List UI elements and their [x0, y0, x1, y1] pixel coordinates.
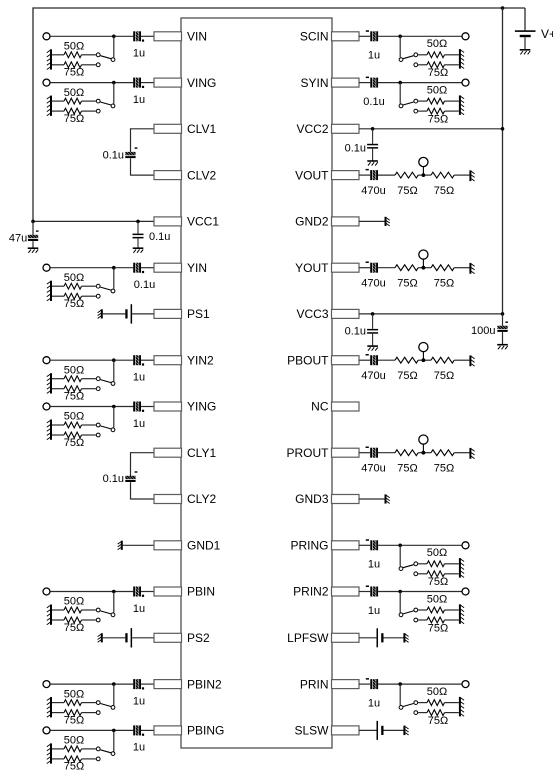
- svg-text:75Ω: 75Ω: [64, 391, 84, 403]
- svg-text:VING: VING: [187, 76, 216, 90]
- connector J (SCIN output): [462, 33, 469, 40]
- svg-text:SCIN: SCIN: [300, 30, 329, 44]
- connector J (PBIN input): [43, 588, 50, 595]
- wire right supply bus: [502, 8, 504, 314]
- svg-text:50Ω: 50Ω: [64, 596, 84, 608]
- pin box GND3: [295, 492, 359, 506]
- svg-text:0.1u: 0.1u: [345, 325, 366, 337]
- resistor 75&#937; (PBOUT series): [395, 357, 418, 382]
- svg-text:PBIN: PBIN: [187, 585, 215, 599]
- svg-text:50Ω: 50Ω: [427, 547, 447, 559]
- pin box CLY2: [154, 492, 216, 506]
- ground (PRING termination): [460, 558, 464, 578]
- wire and node (PROUT output): [418, 451, 431, 455]
- resistor 50&#937; (YING termination): [51, 411, 96, 428]
- svg-text:1u: 1u: [133, 418, 145, 430]
- switch SW (VIN termination select): [96, 36, 115, 66]
- svg-text:PBOUT: PBOUT: [287, 353, 329, 367]
- wire pin PROUT to cap: [359, 452, 370, 454]
- svg-text:75Ω: 75Ω: [64, 67, 84, 79]
- svg-text:1u: 1u: [368, 697, 380, 709]
- svg-text:CLY2: CLY2: [187, 492, 216, 506]
- svg-text:CLY1: CLY1: [187, 446, 216, 460]
- pin box YING: [154, 400, 216, 414]
- ground (VING termination): [47, 96, 51, 116]
- wire cap to resistor (VOUT): [378, 174, 395, 176]
- wire VCC3 to supply bus: [359, 312, 504, 316]
- capacitor C 0.1u (CLY1/CLY2): [103, 471, 138, 485]
- svg-text:75Ω: 75Ω: [434, 277, 454, 289]
- wire CLV1 to cap: [131, 128, 155, 152]
- svg-text:100u: 100u: [471, 325, 495, 337]
- pin box PBOUT: [287, 353, 359, 367]
- svg-text:1u: 1u: [133, 695, 145, 707]
- capacitor C 1u (PRIN coupling): [366, 678, 380, 709]
- svg-text:VCC2: VCC2: [296, 122, 328, 136]
- pin box PRIN: [300, 677, 359, 691]
- svg-text:75Ω: 75Ω: [434, 370, 454, 382]
- battery V+ supply: [515, 8, 553, 50]
- capacitor C 1u (SCIN coupling): [366, 30, 380, 61]
- resistor 50&#937; (SYIN termination): [418, 84, 459, 104]
- resistor 50&#937; (SCIN termination): [418, 38, 459, 58]
- connector J (PROUT output): [419, 435, 428, 453]
- ground (LPFSW): [404, 633, 408, 642]
- capacitor C 470u (PROUT): [361, 447, 385, 475]
- pin box VCC1: [154, 215, 219, 229]
- resistor 50&#937; (VIN termination): [51, 41, 96, 58]
- pin box YIN: [154, 261, 207, 275]
- resistor 75&#937; (YING termination): [51, 432, 96, 449]
- pin box PS2: [154, 631, 210, 645]
- wire cap to resistor (PBOUT): [378, 359, 395, 361]
- pin box GND2: [295, 215, 359, 229]
- resistor 75&#937; (PRING termination): [418, 571, 459, 588]
- resistor 50&#937; (PBIN2 termination): [51, 688, 96, 705]
- svg-text:VCC1: VCC1: [187, 215, 219, 229]
- switch SW (PBING termination select): [96, 730, 115, 760]
- svg-text:75Ω: 75Ω: [397, 277, 417, 289]
- svg-text:YIN: YIN: [187, 261, 207, 275]
- connector J (VING input): [43, 79, 50, 86]
- wire left supply rail: [32, 7, 34, 221]
- svg-text:1u: 1u: [368, 605, 380, 617]
- svg-text:YOUT: YOUT: [295, 261, 329, 275]
- ground (YIN2 termination): [47, 373, 51, 393]
- wire cap to resistor (YOUT): [378, 267, 395, 269]
- svg-text:PBIN2: PBIN2: [187, 677, 222, 691]
- wire battery to ground (LPFSW): [384, 637, 404, 639]
- wire cap to pin PBIN2: [141, 683, 154, 685]
- wire ground to pin GND1: [122, 544, 154, 546]
- resistor 75&#937; (VOUT series): [395, 172, 418, 197]
- ground (100u cap): [497, 345, 508, 350]
- resistor 75&#937; (PBING termination): [51, 756, 96, 773]
- ground (47u cap): [28, 248, 39, 253]
- ground (GND3): [386, 494, 390, 503]
- svg-text:PBING: PBING: [187, 724, 224, 738]
- svg-text:50Ω: 50Ω: [427, 84, 447, 96]
- pin box SYIN: [300, 76, 359, 90]
- ground (V+ battery): [520, 50, 531, 55]
- svg-text:CLV1: CLV1: [187, 122, 216, 136]
- ground (PBOUT): [470, 355, 474, 366]
- wire cap to connector (SYIN): [378, 81, 462, 85]
- ground (GND2): [386, 217, 390, 226]
- battery (LPFSW level): [377, 628, 384, 647]
- svg-text:47u: 47u: [9, 232, 27, 244]
- svg-text:YING: YING: [187, 400, 216, 414]
- switch SW (VING termination select): [96, 83, 115, 113]
- ground (PBING termination): [47, 743, 51, 763]
- resistor 75&#937; (PBOUT shunt): [431, 357, 454, 382]
- svg-text:470u: 470u: [361, 277, 385, 289]
- svg-text:1u: 1u: [133, 742, 145, 754]
- svg-text:75Ω: 75Ω: [64, 437, 84, 449]
- wire ground to battery (PS2): [102, 637, 126, 639]
- pin box CLV2: [154, 168, 216, 182]
- ground (PRIN2 termination): [460, 604, 464, 624]
- wire battery to pin PS2: [132, 637, 154, 639]
- ground (YING termination): [47, 420, 51, 440]
- wire pin PRING to coupling cap: [359, 544, 370, 546]
- svg-text:75Ω: 75Ω: [434, 185, 454, 197]
- svg-text:NC: NC: [311, 400, 329, 414]
- pin box CLV1: [154, 122, 216, 136]
- wire cap to connector (PRING): [378, 544, 462, 548]
- svg-text:GND3: GND3: [295, 492, 329, 506]
- svg-text:50Ω: 50Ω: [427, 593, 447, 605]
- ground (PBIN termination): [47, 605, 51, 625]
- capacitor C 1u (PBING coupling): [133, 725, 145, 753]
- capacitor C 1u (YING coupling): [133, 402, 145, 430]
- capacitor C 0.1u (VCC3 bypass): [345, 314, 379, 346]
- switch SW (SCIN termination select): [399, 36, 418, 66]
- capacitor C 1u (PRIN2 coupling): [366, 586, 380, 617]
- pin box PBIN2: [154, 677, 222, 691]
- capacitor C 0.1u (SYIN coupling): [363, 77, 384, 108]
- ground (VIN termination): [47, 49, 51, 69]
- svg-text:50Ω: 50Ω: [64, 364, 84, 376]
- svg-text:1u: 1u: [133, 603, 145, 615]
- svg-text:50Ω: 50Ω: [427, 38, 447, 50]
- resistor 50&#937; (PBIN termination): [51, 596, 96, 613]
- ground (PRIN termination): [460, 697, 464, 717]
- svg-text:50Ω: 50Ω: [64, 87, 84, 99]
- connector J (YING input): [43, 403, 50, 410]
- svg-text:PRIN2: PRIN2: [293, 585, 329, 599]
- wire PBIN2 input to coupling cap: [50, 682, 133, 686]
- resistor 75&#937; (PBIN termination): [51, 617, 96, 634]
- switch SW (PBIN2 termination select): [96, 684, 115, 714]
- wire cap to pin YING: [141, 406, 154, 408]
- ground (PROUT): [470, 448, 474, 459]
- ground (PS2): [98, 633, 102, 642]
- wire cap to connector (PRIN2): [378, 590, 462, 594]
- svg-text:75Ω: 75Ω: [428, 576, 448, 588]
- pin box VING: [154, 76, 216, 90]
- wire YING input to coupling cap: [50, 405, 133, 409]
- wire cap to connector (SCIN): [378, 35, 462, 39]
- pin box NC: [311, 400, 359, 414]
- wire battery to pin PS1: [132, 313, 154, 315]
- wire pin YOUT to cap: [359, 267, 370, 269]
- svg-text:1u: 1u: [133, 94, 145, 106]
- switch SW (YIN termination select): [96, 268, 115, 298]
- wire VCC1 supply: [31, 220, 154, 224]
- resistor 50&#937; (YIN termination): [51, 272, 96, 289]
- svg-text:SYIN: SYIN: [300, 76, 328, 90]
- ground (YIN termination): [47, 281, 51, 301]
- pin box PS1: [154, 307, 210, 321]
- connector J (PRIN output): [462, 681, 469, 688]
- resistor 75&#937; (VOUT shunt): [431, 172, 454, 197]
- svg-text:75Ω: 75Ω: [64, 298, 84, 310]
- svg-text:0.1u: 0.1u: [103, 473, 124, 485]
- wire cap to connector (PRIN): [378, 682, 462, 686]
- wire cap to CLV2: [131, 158, 155, 175]
- svg-text:50Ω: 50Ω: [427, 686, 447, 698]
- resistor 75&#937; (VIN termination): [51, 62, 96, 79]
- wire cap to pin YIN: [141, 267, 154, 269]
- wire cap to pin VIN: [141, 35, 154, 37]
- svg-text:50Ω: 50Ω: [64, 688, 84, 700]
- resistor 50&#937; (VING termination): [51, 87, 96, 104]
- wire CLY1 to cap: [131, 452, 155, 476]
- ground (PBIN2 termination): [47, 697, 51, 717]
- capacitor C 0.1u (VCC2 bypass): [345, 129, 379, 161]
- svg-text:PS2: PS2: [187, 631, 210, 645]
- svg-text:75Ω: 75Ω: [64, 714, 84, 726]
- svg-text:0.1u: 0.1u: [149, 231, 170, 243]
- wire resistor to ground (PROUT): [454, 452, 470, 454]
- svg-text:YIN2: YIN2: [187, 353, 214, 367]
- svg-text:75Ω: 75Ω: [397, 370, 417, 382]
- wire cap to CLY2: [131, 482, 155, 499]
- pin box VOUT: [295, 168, 359, 182]
- wire and node (YOUT output): [418, 266, 431, 270]
- pin box VIN: [154, 30, 207, 44]
- resistor 75&#937; (PBIN2 termination): [51, 710, 96, 727]
- svg-text:VIN: VIN: [187, 30, 207, 44]
- svg-text:GND1: GND1: [187, 539, 221, 553]
- connector J (PBIN2 input): [43, 681, 50, 688]
- pin box SLSW: [294, 724, 359, 738]
- capacitor C 0.1u (VCC1 bypass): [133, 221, 171, 248]
- svg-text:0.1u: 0.1u: [363, 96, 384, 108]
- svg-text:75Ω: 75Ω: [64, 113, 84, 125]
- wire VING input to coupling cap: [50, 81, 133, 85]
- wire pin LPFSW to battery: [359, 637, 377, 639]
- svg-text:VOUT: VOUT: [295, 168, 329, 182]
- svg-text:PRIN: PRIN: [300, 677, 329, 691]
- connector J (VIN input): [43, 33, 50, 40]
- wire V+ top rail: [33, 6, 525, 10]
- ground (SCIN termination): [460, 49, 464, 69]
- ground (VCC2 bypass cap): [367, 161, 378, 166]
- ground (YOUT): [470, 263, 474, 274]
- battery (SLSW level): [377, 721, 384, 740]
- resistor 75&#937; (SCIN termination): [418, 62, 459, 79]
- pin box PRIN2: [293, 585, 359, 599]
- pin box PRING: [290, 539, 359, 553]
- pin box YOUT: [295, 261, 359, 275]
- capacitor C 1u (PBIN2 coupling): [133, 679, 145, 707]
- svg-text:1u: 1u: [133, 48, 145, 60]
- switch SW (YIN2 termination select): [96, 360, 115, 390]
- wire battery to ground (SLSW): [384, 729, 404, 731]
- resistor 50&#937; (PRIN2 termination): [418, 593, 459, 613]
- connector J (PBING input): [43, 727, 50, 734]
- svg-text:75Ω: 75Ω: [428, 67, 448, 79]
- svg-text:1u: 1u: [368, 559, 380, 571]
- pin box VCC3: [296, 307, 359, 321]
- svg-text:50Ω: 50Ω: [64, 411, 84, 423]
- wire and node (VOUT output): [418, 173, 431, 177]
- resistor 75&#937; (VING termination): [51, 108, 96, 125]
- switch SW (PRIN termination select): [399, 684, 418, 714]
- ground (GND1): [118, 541, 122, 550]
- resistor 75&#937; (YIN termination): [51, 293, 96, 310]
- pin box YIN2: [154, 353, 214, 367]
- svg-text:SLSW: SLSW: [294, 724, 329, 738]
- svg-text:50Ω: 50Ω: [64, 735, 84, 747]
- switch SW (SYIN termination select): [399, 83, 418, 113]
- pin box PBING: [154, 724, 224, 738]
- svg-text:1u: 1u: [133, 372, 145, 384]
- connector J (YIN input): [43, 264, 50, 271]
- pin box CLY1: [154, 446, 216, 460]
- ground (PS1): [98, 309, 102, 318]
- wire cap to pin PBING: [141, 729, 154, 731]
- wire YIN2 input to coupling cap: [50, 358, 133, 362]
- resistor 50&#937; (PRIN termination): [418, 686, 459, 706]
- svg-text:75Ω: 75Ω: [397, 185, 417, 197]
- resistor 50&#937; (YIN2 termination): [51, 364, 96, 381]
- resistor 75&#937; (PROUT series): [395, 450, 418, 475]
- capacitor C 0.1u (YIN coupling): [133, 263, 155, 291]
- wire cap to resistor (PROUT): [378, 452, 395, 454]
- resistor 75&#937; (PROUT shunt): [431, 450, 454, 475]
- resistor 50&#937; (PBING termination): [51, 735, 96, 752]
- svg-text:75Ω: 75Ω: [434, 462, 454, 474]
- wire cap to pin YIN2: [141, 359, 154, 361]
- svg-text:V+: V+: [541, 27, 553, 41]
- svg-text:75Ω: 75Ω: [64, 622, 84, 634]
- ground (SYIN termination): [460, 95, 464, 115]
- svg-text:0.1u: 0.1u: [134, 279, 155, 291]
- op-amp U1 IC body: [181, 18, 332, 748]
- pin box SCIN: [300, 30, 359, 44]
- svg-text:PS1: PS1: [187, 307, 210, 321]
- connector J (PRING output): [462, 542, 469, 549]
- capacitor C 470u (YOUT): [361, 262, 385, 290]
- battery (PS2 level): [125, 628, 132, 647]
- wire pin GND3 to ground: [359, 498, 385, 500]
- svg-text:75Ω: 75Ω: [428, 622, 448, 634]
- svg-text:470u: 470u: [361, 185, 385, 197]
- wire pin GND2 to ground: [359, 220, 385, 222]
- wire PBING input to coupling cap: [50, 729, 133, 733]
- capacitor C 1u (YIN2 coupling): [133, 355, 145, 383]
- svg-text:75Ω: 75Ω: [428, 113, 448, 125]
- svg-text:LPFSW: LPFSW: [287, 631, 329, 645]
- wire VIN input to coupling cap: [50, 35, 133, 39]
- pin box VCC2: [296, 122, 359, 136]
- capacitor C 470u (VOUT): [361, 169, 385, 197]
- wire pin PRIN to coupling cap: [359, 683, 370, 685]
- svg-text:470u: 470u: [361, 462, 385, 474]
- svg-text:50Ω: 50Ω: [64, 272, 84, 284]
- capacitor C 0.1u (CLV1/CLV2): [103, 147, 138, 161]
- svg-text:470u: 470u: [361, 370, 385, 382]
- battery (PS1 level): [125, 304, 132, 323]
- svg-text:GND2: GND2: [295, 215, 329, 229]
- pin box PROUT: [287, 446, 360, 460]
- ground (VCC1 bypass cap): [133, 248, 144, 253]
- svg-text:CLV2: CLV2: [187, 168, 216, 182]
- capacitor C 47u (VCC1 bulk): [9, 221, 39, 248]
- capacitor C 1u (VIN coupling): [133, 31, 145, 59]
- svg-text:0.1u: 0.1u: [345, 142, 366, 154]
- resistor 75&#937; (PRIN termination): [418, 710, 459, 727]
- capacitor C 1u (VING coupling): [133, 78, 145, 106]
- wire pin VOUT to cap: [359, 174, 370, 176]
- pin box PBIN: [154, 585, 215, 599]
- ground (VCC3 bypass cap): [367, 346, 378, 351]
- resistor 75&#937; (PRIN2 termination): [418, 617, 459, 634]
- capacitor C 470u (PBOUT): [361, 354, 385, 382]
- wire and node (PBOUT output): [418, 358, 431, 362]
- wire resistor to ground (VOUT): [454, 174, 470, 176]
- svg-text:VCC3: VCC3: [296, 307, 328, 321]
- wire ground to battery (PS1): [102, 313, 126, 315]
- switch SW (YING termination select): [96, 407, 115, 437]
- wire pin PRIN2 to coupling cap: [359, 591, 370, 593]
- capacitor C 1u (PBIN coupling): [133, 587, 145, 615]
- pin box GND1: [154, 539, 221, 553]
- wire pin SYIN to coupling cap: [359, 82, 370, 84]
- wire pin SLSW to battery: [359, 729, 377, 731]
- connector J (YOUT output): [419, 250, 428, 268]
- resistor 50&#937; (PRING termination): [418, 547, 459, 567]
- wire PBIN input to coupling cap: [50, 590, 133, 594]
- switch SW (PRING termination select): [399, 545, 418, 575]
- connector J (YIN2 input): [43, 357, 50, 364]
- svg-text:1u: 1u: [368, 50, 380, 62]
- connector J (VOUT output): [419, 157, 428, 175]
- resistor 75&#937; (YOUT series): [395, 265, 418, 290]
- switch SW (PBIN termination select): [96, 592, 115, 622]
- svg-text:75Ω: 75Ω: [428, 715, 448, 727]
- connector J (PBOUT output): [419, 343, 428, 361]
- resistor 75&#937; (YIN2 termination): [51, 386, 96, 403]
- connector J (PRIN2 output): [462, 588, 469, 595]
- capacitor C 1u (PRING coupling): [366, 539, 380, 570]
- resistor 75&#937; (YOUT shunt): [431, 265, 454, 290]
- svg-text:PRING: PRING: [290, 539, 328, 553]
- wire cap to pin PBIN: [141, 591, 154, 593]
- connector J (SYIN output): [462, 79, 469, 86]
- wire pin PBOUT to cap: [359, 359, 370, 361]
- svg-text:0.1u: 0.1u: [103, 149, 124, 161]
- svg-text:50Ω: 50Ω: [64, 41, 84, 53]
- pin box LPFSW: [287, 631, 359, 645]
- capacitor C 100u (supply bulk): [471, 314, 508, 345]
- svg-text:75Ω: 75Ω: [397, 462, 417, 474]
- resistor 75&#937; (SYIN termination): [418, 108, 459, 125]
- wire pin SCIN to coupling cap: [359, 35, 370, 37]
